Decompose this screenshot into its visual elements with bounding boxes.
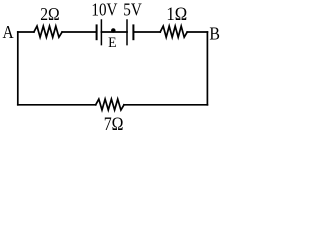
battery V2 5V short plate xyxy=(132,25,134,39)
wire right vertical xyxy=(206,32,208,105)
svg-text:5V: 5V xyxy=(123,0,142,20)
wire battery V1 to battery V2 xyxy=(101,31,127,33)
svg-text:A: A xyxy=(3,22,14,42)
wire R1 to battery V1 xyxy=(62,31,97,33)
wire left vertical xyxy=(17,32,19,105)
wire battery V2 to resistor R2 xyxy=(133,31,160,33)
svg-text:10V: 10V xyxy=(91,0,117,20)
wire A to resistor R1 xyxy=(18,31,34,33)
svg-text:E: E xyxy=(108,34,117,51)
battery V1 10V long plate xyxy=(100,20,102,45)
battery V2 5V long plate xyxy=(126,20,128,45)
wire bottom right segment xyxy=(124,104,207,106)
battery V1 10V short plate xyxy=(96,25,98,39)
wire R2 to corner B xyxy=(187,31,207,33)
svg-text:1Ω: 1Ω xyxy=(166,3,187,24)
svg-text:B: B xyxy=(209,24,220,44)
resistor R2 1ohm xyxy=(160,26,187,37)
node E junction dot xyxy=(111,28,116,33)
wire bottom left segment xyxy=(18,104,96,106)
resistor R1 2ohm xyxy=(34,26,62,37)
svg-text:2Ω: 2Ω xyxy=(40,4,59,24)
svg-text:7Ω: 7Ω xyxy=(104,113,124,132)
resistor R3 7ohm xyxy=(96,99,124,110)
